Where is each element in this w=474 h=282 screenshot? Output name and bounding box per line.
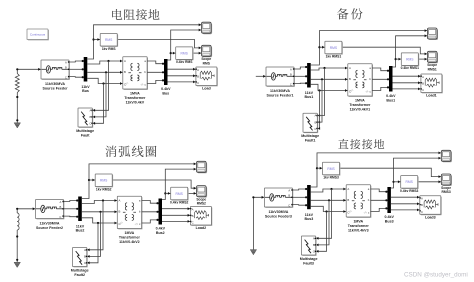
wire phase b: transformer to 0.4kV bus (371, 199, 388, 201)
wire phase A: feeder to 11kV bus (292, 188, 307, 190)
svg-text:11kV/0.4kV1: 11kV/0.4kV1 (350, 108, 371, 112)
wire phase B: 11kV bus to transformer (82, 210, 118, 213)
wire phase A: 0.4kV bus to load (162, 207, 190, 210)
RMS block 0.4kv RMS3 (401, 176, 419, 189)
svg-text:0.4kV: 0.4kV (386, 94, 396, 98)
svg-text:A: A (315, 114, 317, 118)
label 0.4kV Bus2 (156, 227, 166, 235)
svg-text:1MVA: 1MVA (353, 220, 363, 224)
scope Scope3 (instantaneous voltages) (441, 150, 452, 162)
source feeder 11kV30MVA Source Feeder (41, 60, 70, 80)
svg-text:A: A (90, 109, 92, 113)
fault block Multistage Fault (78, 108, 93, 128)
label 11kV Bus1 (305, 91, 314, 99)
svg-text:B: B (290, 72, 292, 76)
wire phase C: 0.4kV bus to load (393, 88, 421, 91)
svg-text:Source Feeder3: Source Feeder3 (265, 215, 292, 219)
wire phase A: feeder to 11kV bus (64, 199, 79, 201)
svg-text:Continuous: Continuous (30, 32, 46, 36)
svg-text:C: C (89, 122, 91, 126)
svg-text:A: A (347, 187, 349, 191)
svg-text:C: C (288, 203, 290, 207)
svg-text:Bus3: Bus3 (385, 219, 394, 223)
load block Load (196, 67, 218, 86)
svg-text:A: A (65, 61, 67, 65)
wire: 0.4kv RMS output to Scope RMS (194, 52, 202, 55)
label Transformer (124, 92, 146, 105)
wire phase A: feeder to 11kV bus (69, 60, 84, 62)
label Source Feeder3 (265, 210, 292, 219)
label Transformer3 (348, 220, 370, 233)
svg-text:RMS: RMS (327, 167, 335, 171)
wire: tap into RMS block 0.4kv RMS3 (394, 180, 401, 183)
svg-text:Fault1: Fault1 (305, 139, 316, 143)
svg-text:0.4kV: 0.4kV (156, 227, 166, 231)
svg-text:RMS: RMS (181, 52, 189, 56)
svg-text:RMS: RMS (176, 192, 184, 196)
svg-text:Fault2: Fault2 (74, 273, 85, 277)
wire phase C: 11kV bus to transformer (311, 84, 348, 92)
svg-text:11kV30MVA: 11kV30MVA (268, 210, 288, 214)
label Transformer1 (349, 99, 371, 112)
title 消弧线圈 (105, 146, 156, 157)
wire: 1kv RMS2 output to Scope RMS2 (113, 180, 196, 190)
svg-text:11kV: 11kV (305, 91, 314, 95)
svg-text:B: B (65, 65, 67, 69)
scope Scope RMS1 (427, 51, 438, 63)
svg-text:Transformer: Transformer (124, 96, 146, 100)
svg-text:A: A (192, 207, 194, 211)
label Source Feeder1 (267, 89, 294, 98)
svg-text:11kV/0.4kV: 11kV/0.4kV (126, 101, 145, 105)
load block Load3 (420, 196, 442, 215)
label 11kV Bus (81, 85, 90, 93)
bus bar 11kV Bus1 (307, 63, 311, 88)
svg-text:B: B (90, 115, 92, 119)
label 0.4kV Bus1 (386, 94, 396, 102)
svg-text:11kV30MVA: 11kV30MVA (45, 82, 65, 86)
svg-text:C: C (197, 81, 199, 85)
RMS block 1kv RMS2 (95, 174, 113, 187)
load block Load2 (190, 207, 212, 226)
wire phase b: transformer to 0.4kV bus (372, 78, 389, 80)
wire phase a: transformer to 0.4kV bus (371, 189, 388, 193)
RMS block 0.4kv RMS (176, 47, 194, 60)
wire phase b: transformer to 0.4kV bus (147, 71, 164, 73)
RMS block 1kv RMS (100, 34, 118, 47)
svg-text:11kV30MVA: 11kV30MVA (270, 89, 290, 93)
svg-text:A: A (422, 75, 424, 79)
powergui block Continuous (27, 29, 49, 40)
wire: 0.4kv RMS1 output to Scope RMS1 (419, 58, 427, 61)
svg-text:Load1: Load1 (426, 94, 437, 98)
wire phase C: feeder to 11kV bus (64, 216, 79, 218)
load block Load1 (421, 74, 443, 93)
svg-text:A: A (124, 59, 126, 63)
svg-text:B: B (119, 210, 121, 214)
svg-text:C: C (192, 221, 194, 225)
svg-text:A: A (421, 197, 423, 201)
svg-text:A: A (84, 248, 86, 252)
svg-text:Load2: Load2 (196, 226, 207, 230)
wire phase B: 11kV bus to transformer (87, 71, 123, 74)
wire phase B: feeder to 11kV bus (69, 68, 84, 70)
wire phase B: 11kV bus to transformer (311, 78, 348, 81)
svg-text:RMS: RMS (100, 179, 108, 183)
svg-text:11kV/0.4kV2: 11kV/0.4kV2 (119, 240, 140, 244)
transformer 1MVA Transformer 11kV/0.4kV3 (346, 185, 371, 218)
svg-text:B: B (60, 205, 62, 209)
svg-text:C: C (313, 250, 315, 254)
scope Scope1 (instantaneous voltages) (427, 28, 438, 40)
wire: 0.4kV bus Vabc measurement to Scope3 and RMS tap (391, 157, 441, 188)
scope Scope RMS3 (441, 174, 452, 186)
wire: neutral from Source Feeder2 to arc-suppression coil (16, 207, 35, 213)
wire: tap into RMS block 1kv RMS (94, 38, 101, 41)
svg-text:B: B (422, 81, 424, 85)
svg-text:A: A (349, 66, 351, 70)
wire: 0.4kV bus Vabc measurement to Scope2 and RMS tap (162, 168, 196, 200)
wire: fault tap phase C (87, 223, 98, 264)
svg-text:Source Feeder: Source Feeder (43, 87, 69, 91)
wire phase C: feeder to 11kV bus (294, 82, 307, 84)
svg-text:A: A (290, 68, 292, 72)
wire: 0.4kv RMS2 output to Scope RMS2 (189, 192, 197, 195)
svg-text:RMS1: RMS1 (428, 67, 437, 71)
label Scope RMS2 (196, 197, 206, 205)
ground symbol (250, 250, 256, 255)
RMS block 0.4kv RMS2 (171, 187, 189, 200)
bus bar 0.4kV Bus (164, 59, 168, 85)
label Multistage Fault1 (301, 134, 319, 143)
RMS block 0.4kv RMS1 (401, 53, 419, 66)
svg-text:A: A (119, 198, 121, 202)
wire: fault tap phase B (317, 79, 322, 123)
wire: tap into RMS block 0.4kv RMS1 (396, 58, 402, 61)
svg-text:0.4kv RMS2: 0.4kv RMS2 (170, 201, 188, 205)
svg-text:Bus1: Bus1 (305, 95, 314, 99)
bus bar 0.4kV Bus2 (159, 199, 163, 225)
svg-text:Multistage: Multistage (301, 134, 319, 138)
svg-text:Bus2: Bus2 (76, 229, 85, 233)
svg-text:1kv RMS1: 1kv RMS1 (326, 55, 342, 59)
svg-text:0.4kV: 0.4kV (384, 215, 394, 219)
svg-text:A: A (288, 189, 290, 193)
wire phase C: 11kV bus to transformer (82, 218, 118, 225)
svg-text:Bus2: Bus2 (156, 231, 165, 235)
wire phase c: transformer to 0.4kV bus (371, 207, 388, 211)
ground symbol (14, 262, 20, 267)
label 11kV Bus2 (76, 224, 85, 232)
svg-text:C: C (421, 210, 423, 214)
wire: neutral from Source Feeder to grounding resistor (16, 68, 41, 74)
svg-text:Multistage: Multistage (300, 257, 318, 261)
wire phase B: feeder to 11kV bus (292, 196, 307, 198)
wire phase C: feeder to 11kV bus (69, 76, 84, 78)
wire: tap into RMS block 0.4kv RMS (171, 52, 176, 55)
wire: fault tap phase C (92, 84, 103, 125)
svg-text:11kV: 11kV (76, 224, 85, 228)
svg-text:11kV: 11kV (305, 213, 314, 217)
svg-text:1kv RMS2: 1kv RMS2 (96, 187, 112, 191)
svg-text:Bus: Bus (162, 91, 169, 95)
svg-text:RMS: RMS (105, 38, 113, 42)
svg-text:Transformer: Transformer (348, 224, 370, 228)
svg-text:0.4kv RMS3: 0.4kv RMS3 (400, 189, 418, 193)
label 0.4kV Bus (161, 87, 171, 95)
svg-text:Bus3: Bus3 (305, 217, 314, 221)
svg-text:1MVA: 1MVA (130, 92, 140, 96)
label Multistage Fault2 (71, 268, 89, 277)
title 直接接地 (338, 139, 384, 149)
wire: 11kV bus Vabc measurement to Scope3 and RMS tap (311, 152, 441, 188)
wire phase A: 0.4kV bus to load (391, 196, 420, 199)
label Scope RMS (201, 57, 211, 65)
fault block Multistage Fault2 (73, 248, 88, 268)
svg-text:C: C (84, 261, 86, 265)
scope Scope RMS (202, 45, 213, 57)
label 0.4kV Bus3 (384, 215, 394, 223)
bus bar 11kV Bus (84, 57, 88, 82)
wire: 0.4kV bus Vabc measurement to Scope and RMS tap (168, 29, 202, 60)
svg-text:Transformer: Transformer (119, 236, 141, 240)
svg-text:RMS: RMS (203, 61, 211, 65)
svg-text:A: A (60, 200, 62, 204)
source feeder 11kV30MVA Source Feeder2 (36, 200, 65, 220)
wire: fault tap phase B (87, 212, 101, 258)
title 备份 (337, 8, 363, 19)
svg-text:C: C (65, 75, 67, 79)
svg-text:B: B (421, 203, 423, 207)
svg-text:11kV: 11kV (81, 85, 90, 89)
source feeder 11kV30MVA Source Feeder3 (264, 188, 293, 208)
RMS block 1kv RMS3 (323, 162, 341, 175)
wire: coil to ground (16, 230, 18, 262)
svg-text:Load: Load (202, 87, 211, 91)
wire: resistor to ground (16, 93, 18, 123)
wire: 11kV bus Vabc measurement to Scope2 and RMS tap (82, 163, 196, 199)
svg-text:B: B (313, 243, 315, 247)
scope Scope RMS2 (197, 186, 208, 198)
resistor Rg (neutral grounding resistor) (15, 74, 19, 93)
svg-text:C: C (314, 127, 316, 131)
wire: 11kV bus Vabc measurement to Scope and RMS tap (87, 23, 201, 59)
bus bar 11kV Bus3 (307, 185, 311, 209)
svg-text:0.4kv RMS1: 0.4kv RMS1 (401, 66, 419, 70)
svg-text:B: B (192, 214, 194, 218)
svg-text:Bus1: Bus1 (386, 98, 395, 102)
source feeder 11kV30MVA Source Feeder1 (266, 67, 295, 87)
svg-text:0.4kV: 0.4kV (161, 87, 171, 91)
wire phase B: 11kV bus to transformer (311, 199, 347, 202)
svg-text:A: A (313, 237, 315, 241)
wire phase B: feeder to 11kV bus (64, 208, 79, 210)
wire: fault tap phase A (317, 68, 324, 117)
svg-text:RMS: RMS (406, 58, 414, 62)
transformer 1MVA Transformer 11kV/0.4kV2 (117, 196, 142, 229)
wire: fault tap phase C (316, 212, 327, 253)
wire phase A: 11kV bus to transformer (311, 67, 348, 70)
svg-text:1MVA: 1MVA (355, 99, 365, 103)
ground symbol (14, 123, 20, 128)
scope Scope2 (instantaneous voltages) (197, 161, 208, 173)
wire: tap into RMS block 1kv RMS1 (319, 46, 325, 49)
wire phase a: transformer to 0.4kV bus (147, 61, 164, 65)
svg-text:Multistage: Multistage (71, 268, 89, 272)
wire: 11kV bus Vabc measurement to Scope1 and RMS tap (311, 29, 427, 65)
wire phase c: transformer to 0.4kV bus (147, 79, 164, 83)
svg-text:C: C (422, 88, 424, 92)
label Source Feeder2 (36, 222, 63, 231)
svg-text:0.4kv RMS: 0.4kv RMS (176, 60, 193, 64)
bus bar 11kV Bus2 (78, 197, 82, 222)
wire phase C: feeder to 11kV bus (292, 204, 307, 206)
wire: fault tap phase B (92, 72, 106, 118)
wire phase a: transformer to 0.4kV bus (142, 201, 159, 205)
svg-text:Source Feeder1: Source Feeder1 (267, 94, 294, 98)
wire: 1kv RMS1 output to Scope RMS1 (343, 47, 427, 55)
wire phase C: 11kV bus to transformer (87, 78, 123, 85)
svg-text:Multistage: Multistage (76, 129, 94, 133)
svg-text:Source Feeder2: Source Feeder2 (36, 226, 63, 230)
bus bar 0.4kV Bus3 (387, 187, 391, 213)
wire phase A: 0.4kV bus to load (393, 75, 421, 78)
fault block Multistage Fault3 (301, 236, 316, 256)
svg-text:RMS: RMS (406, 180, 414, 184)
wire: fault tap phase A (87, 201, 103, 252)
wire phase B: 0.4kV bus to load (162, 214, 190, 217)
svg-text:11kV/0.4kV3: 11kV/0.4kV3 (348, 229, 369, 233)
svg-text:B: B (315, 120, 317, 124)
wire phase C: 0.4kV bus to load (391, 209, 420, 212)
svg-text:Transformer: Transformer (349, 103, 371, 107)
svg-text:1MVA: 1MVA (125, 231, 135, 235)
wire: fault tap phase A (316, 189, 332, 240)
scope Scope (instantaneous voltages) (202, 22, 213, 34)
wire phase a: transformer to 0.4kV bus (372, 68, 389, 72)
RMS block 1kv RMS1 (325, 41, 343, 54)
svg-text:11kV30MVA: 11kV30MVA (40, 222, 60, 226)
wire phase b: transformer to 0.4kV bus (142, 211, 159, 213)
inductor Lg2 (arc suppression coil) (17, 213, 19, 230)
wire: tap into RMS block 1kv RMS3 (317, 167, 323, 170)
svg-text:C: C (290, 82, 292, 86)
label 11kV Bus3 (305, 213, 314, 221)
wire phase A: 11kV bus to transformer (82, 199, 118, 203)
wire phase c: transformer to 0.4kV bus (142, 219, 159, 223)
svg-text:1kv RMS3: 1kv RMS3 (323, 176, 339, 180)
wire: fault tap phase B (316, 200, 329, 246)
wire phase A: 11kV bus to transformer (87, 60, 123, 64)
svg-text:RMS3: RMS3 (442, 190, 451, 194)
wire phase C: 11kV bus to transformer (311, 206, 347, 213)
label Multistage Fault3 (300, 257, 318, 266)
wire phase B: feeder to 11kV bus (294, 75, 307, 77)
wire phase c: transformer to 0.4kV bus (372, 86, 389, 90)
svg-text:B: B (197, 74, 199, 78)
wire phase B: 0.4kV bus to load (391, 202, 420, 205)
wire phase C: 0.4kV bus to load (168, 81, 196, 84)
svg-text:RMS: RMS (330, 46, 338, 50)
svg-text:RMS2: RMS2 (197, 202, 206, 206)
svg-text:C: C (59, 215, 61, 219)
svg-text:Bus: Bus (82, 89, 89, 93)
wire phase A: 11kV bus to transformer (311, 188, 347, 192)
svg-text:B: B (124, 70, 126, 74)
wire: fault tap phase C (317, 91, 320, 130)
svg-text:B: B (349, 77, 351, 81)
svg-text:B: B (347, 198, 349, 202)
wire phase C: 0.4kV bus to load (162, 220, 190, 223)
svg-text:1kv RMS: 1kv RMS (102, 47, 117, 51)
wire: input stub to Source Feeder1 (256, 75, 266, 78)
svg-text:B: B (84, 255, 86, 259)
label Scope RMS1 (427, 63, 437, 71)
svg-text:A: A (197, 68, 199, 72)
wire phase B: 0.4kV bus to load (168, 74, 196, 77)
wire: tap into RMS block 0.4kv RMS2 (165, 192, 170, 195)
label Source Feeder (43, 82, 69, 91)
transformer 1MVA Transformer 11kV/0.4kV (123, 57, 148, 90)
svg-text:Fault3: Fault3 (303, 262, 314, 266)
wire phase A: feeder to 11kV bus (294, 66, 307, 69)
wire phase B: 0.4kV bus to load (393, 81, 421, 84)
label Scope RMS3 (441, 186, 451, 194)
svg-text:CSDN @studyer_domi: CSDN @studyer_domi (404, 271, 468, 278)
bus bar 0.4kV Bus1 (389, 66, 393, 92)
wire: 0.4kv RMS3 output to Scope RMS3 (419, 180, 441, 183)
label Transformer2 (119, 231, 141, 244)
wire: 1kv RMS3 output to Scope RMS3 (340, 168, 441, 178)
svg-text:B: B (288, 193, 290, 197)
transformer 1MVA Transformer 11kV/0.4kV1 (348, 64, 373, 97)
wire: 1kv RMS output to Scope RMS (118, 40, 201, 50)
svg-text:Load3: Load3 (425, 216, 436, 220)
fault block Multistage Fault1 (303, 113, 318, 133)
wire phase A: 0.4kV bus to load (168, 68, 196, 71)
svg-text:Fault: Fault (81, 134, 90, 138)
title 电阻接地 (112, 9, 159, 20)
wire: fault tap phase A (92, 61, 108, 112)
wire: tap into RMS block 1kv RMS2 (89, 179, 95, 182)
wire: 0.4kV bus Vabc measurement to Scope1 and RMS tap (393, 34, 428, 67)
label Multistage Fault (76, 129, 94, 138)
wire: neutral from Source Feeder3 directly to ground (252, 196, 264, 250)
